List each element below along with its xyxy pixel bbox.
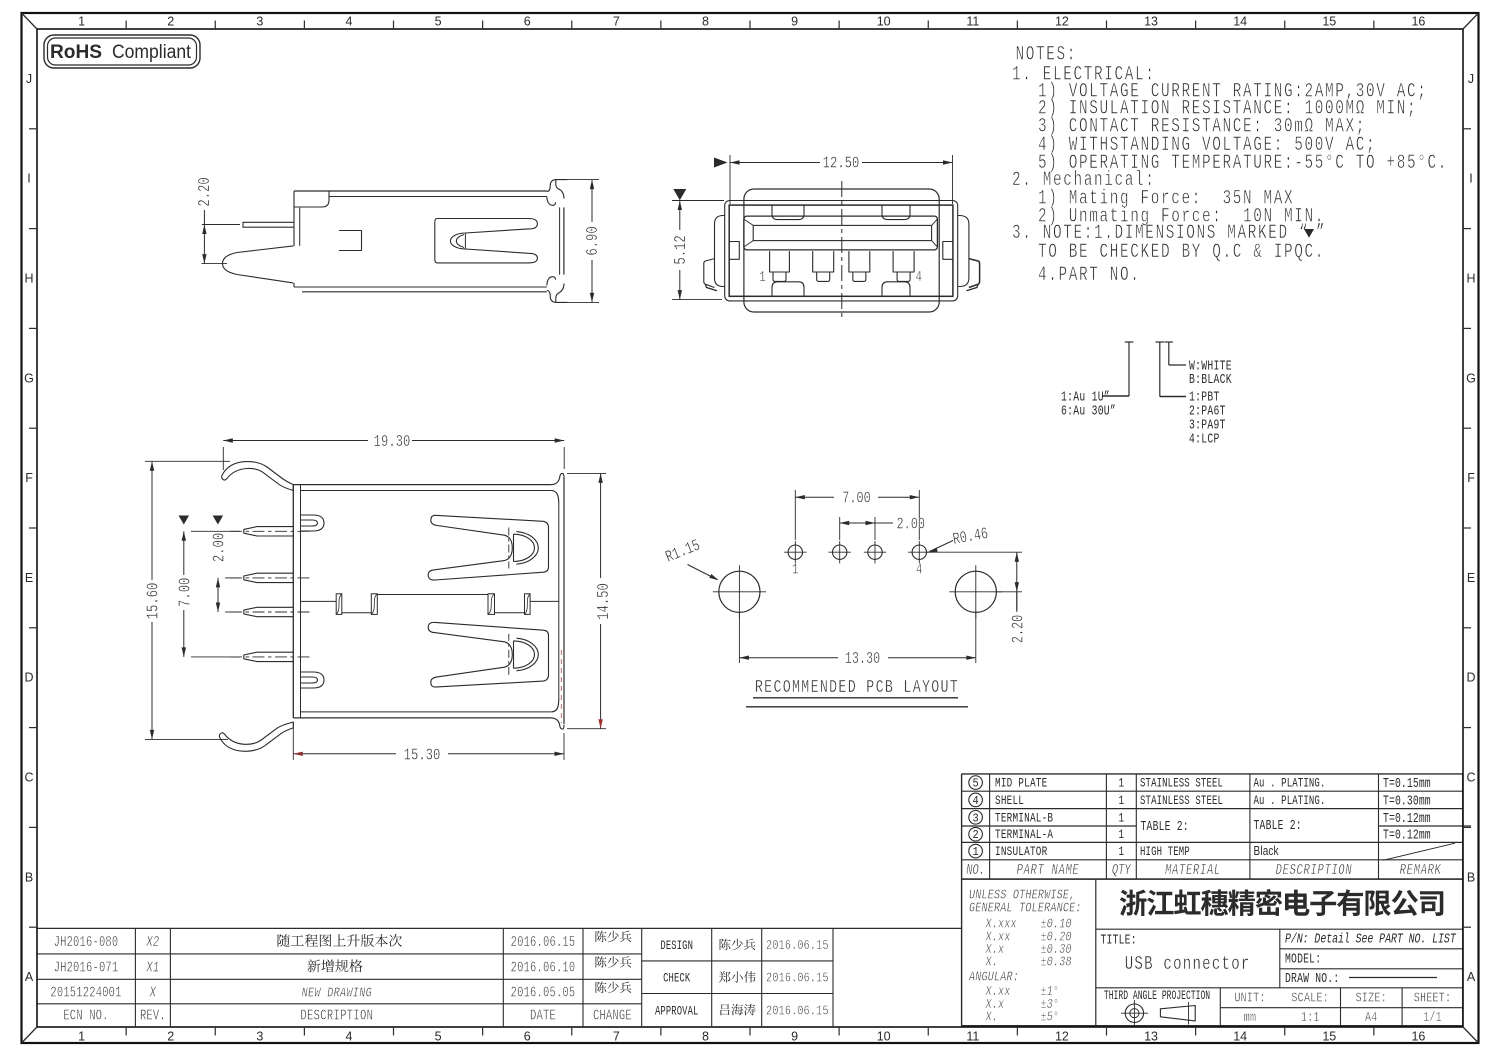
svg-text:DESIGN: DESIGN	[660, 940, 693, 954]
svg-text:1: 1	[1118, 812, 1124, 826]
svg-text:mm: mm	[1244, 1010, 1257, 1026]
svg-text:ANGULAR:: ANGULAR:	[968, 969, 1019, 985]
svg-text:2016.06.15: 2016.06.15	[766, 1003, 829, 1019]
svg-text:X1: X1	[146, 959, 160, 976]
svg-text:2016.06.15: 2016.06.15	[511, 933, 576, 950]
svg-text:2.20: 2.20	[196, 177, 214, 206]
svg-text:6:Au 30U”: 6:Au 30U”	[1061, 403, 1116, 419]
svg-text:4: 4	[345, 1030, 352, 1044]
svg-text:2016.06.15: 2016.06.15	[766, 970, 829, 986]
svg-text:F: F	[1467, 471, 1475, 485]
svg-text:13.30: 13.30	[845, 650, 881, 668]
svg-text:13: 13	[1144, 15, 1158, 29]
svg-text:TABLE 2:: TABLE 2:	[1254, 818, 1302, 834]
svg-text:5: 5	[435, 1030, 442, 1044]
svg-text:15: 15	[1322, 15, 1336, 29]
svg-text:6: 6	[524, 1030, 531, 1044]
svg-text:CHECK: CHECK	[663, 972, 690, 986]
svg-text:I: I	[27, 172, 30, 186]
svg-text:PART NAME: PART NAME	[1017, 861, 1080, 878]
svg-text:H: H	[24, 272, 33, 286]
svg-text:P/N: Detail See PART NO. LIST: P/N: Detail See PART NO. LIST	[1285, 931, 1456, 947]
svg-text:TERMINAL-B: TERMINAL-B	[995, 812, 1053, 826]
svg-text:Au . PLATING.: Au . PLATING.	[1254, 795, 1326, 809]
svg-text:APPROVAL: APPROVAL	[655, 1005, 699, 1019]
svg-text:9: 9	[791, 15, 798, 29]
svg-text:15.60: 15.60	[145, 583, 163, 620]
svg-text:QTY: QTY	[1112, 861, 1132, 878]
svg-text:T=0.12mm: T=0.12mm	[1383, 810, 1431, 826]
svg-text:C: C	[1466, 771, 1475, 785]
svg-text:MODEL:: MODEL:	[1285, 951, 1321, 967]
svg-text:2.00: 2.00	[897, 516, 925, 534]
svg-text:B: B	[1467, 870, 1475, 884]
svg-text:SHELL: SHELL	[995, 795, 1024, 809]
svg-text:A: A	[1467, 970, 1476, 984]
svg-text:12.50: 12.50	[823, 155, 860, 173]
svg-text:12: 12	[1055, 1030, 1069, 1044]
svg-text:7: 7	[613, 15, 620, 29]
svg-text:F: F	[25, 471, 33, 485]
svg-text:10: 10	[877, 15, 891, 29]
svg-text:Black: Black	[1254, 845, 1279, 858]
svg-text:2.00: 2.00	[211, 533, 229, 562]
svg-text:4: 4	[972, 795, 979, 808]
svg-text:3: 3	[256, 1030, 263, 1044]
svg-text:THIRD ANGLE PROJECTION: THIRD ANGLE PROJECTION	[1104, 989, 1210, 1003]
svg-text:G: G	[24, 371, 34, 385]
svg-text:NEW DRAWING: NEW DRAWING	[302, 985, 373, 1001]
svg-text:1/1: 1/1	[1423, 1010, 1442, 1026]
svg-text:1: 1	[792, 561, 799, 578]
svg-text:CHANGE: CHANGE	[593, 1007, 632, 1024]
svg-text:5: 5	[435, 15, 442, 29]
svg-text:DATE: DATE	[530, 1007, 556, 1024]
svg-text:1: 1	[759, 268, 766, 285]
svg-text:E: E	[25, 571, 33, 585]
svg-text:5.12: 5.12	[672, 235, 690, 264]
svg-text:SCALE:: SCALE:	[1291, 990, 1329, 1006]
svg-text:T=0.12mm: T=0.12mm	[1383, 827, 1431, 843]
svg-text:2: 2	[972, 830, 978, 843]
svg-text:1: 1	[1118, 777, 1124, 791]
svg-text:UNIT:: UNIT:	[1234, 990, 1265, 1006]
svg-text:14: 14	[1233, 1030, 1247, 1044]
svg-text:Au . PLATING.: Au . PLATING.	[1254, 777, 1326, 791]
svg-text:±5°: ±5°	[1041, 1009, 1060, 1025]
svg-text:15: 15	[1322, 1030, 1336, 1044]
svg-text:5: 5	[972, 778, 978, 791]
svg-text:19.30: 19.30	[374, 433, 411, 451]
svg-text:2016.06.10: 2016.06.10	[511, 959, 576, 976]
svg-text:JH2016-071: JH2016-071	[54, 959, 119, 976]
svg-text:2016.05.05: 2016.05.05	[511, 984, 576, 1001]
svg-text:±0.38: ±0.38	[1041, 954, 1072, 970]
svg-text:4.PART NO.: 4.PART NO.	[1038, 264, 1141, 287]
svg-text:4: 4	[915, 268, 922, 285]
svg-text:HIGH TEMP: HIGH TEMP	[1140, 846, 1190, 860]
svg-text:REMARK: REMARK	[1400, 861, 1442, 878]
svg-text:DRAW NO.:: DRAW NO.:	[1285, 971, 1339, 987]
svg-text:D: D	[24, 671, 33, 685]
svg-text:11: 11	[966, 1030, 979, 1044]
svg-text:X.: X.	[985, 1009, 998, 1025]
svg-text:1: 1	[972, 847, 979, 860]
svg-text:13: 13	[1144, 1030, 1158, 1044]
svg-text:JH2016-080: JH2016-080	[54, 933, 119, 950]
svg-text:I: I	[1469, 172, 1472, 186]
svg-text:10: 10	[877, 1030, 891, 1044]
svg-text:”: ”	[1316, 222, 1326, 245]
svg-text:RECOMMENDED PCB LAYOUT: RECOMMENDED PCB LAYOUT	[755, 677, 959, 698]
svg-text:14.50: 14.50	[595, 583, 613, 620]
svg-text:15.30: 15.30	[404, 747, 441, 765]
svg-text:T=0.15mm: T=0.15mm	[1383, 776, 1431, 792]
svg-text:1: 1	[1118, 829, 1124, 843]
svg-text:11: 11	[966, 15, 979, 29]
svg-text:X.: X.	[985, 954, 998, 970]
svg-text:RoHS: RoHS	[50, 41, 102, 63]
svg-text:DESCRIPTION: DESCRIPTION	[1276, 861, 1353, 878]
svg-text:MATERIAL: MATERIAL	[1165, 861, 1221, 878]
svg-text:REV.: REV.	[140, 1007, 166, 1024]
svg-text:7.00: 7.00	[177, 578, 195, 607]
svg-text:6.90: 6.90	[584, 226, 602, 255]
svg-text:C: C	[24, 771, 33, 785]
svg-text:3: 3	[972, 813, 978, 826]
svg-text:8: 8	[702, 15, 709, 29]
svg-text:3: 3	[256, 15, 263, 29]
svg-text:7: 7	[613, 1030, 620, 1044]
svg-text:4:LCP: 4:LCP	[1189, 431, 1220, 447]
svg-text:B: B	[25, 870, 33, 884]
svg-text:14: 14	[1233, 15, 1247, 29]
svg-text:SHEET:: SHEET:	[1414, 990, 1452, 1006]
svg-text:STAINLESS STEEL: STAINLESS STEEL	[1140, 777, 1223, 791]
svg-text:6: 6	[524, 15, 531, 29]
svg-text:TITLE:: TITLE:	[1101, 932, 1137, 948]
svg-text:TERMINAL-A: TERMINAL-A	[995, 829, 1053, 843]
svg-text:E: E	[1467, 571, 1475, 585]
svg-text:NO.: NO.	[966, 861, 985, 878]
svg-text:GENERAL TOLERANCE:: GENERAL TOLERANCE:	[969, 900, 1082, 916]
svg-text:USB connector: USB connector	[1125, 954, 1251, 976]
svg-text:2016.06.15: 2016.06.15	[766, 938, 829, 954]
svg-text:16: 16	[1411, 1030, 1425, 1044]
svg-text:D: D	[1466, 671, 1475, 685]
svg-text:1: 1	[78, 15, 85, 29]
svg-text:SIZE:: SIZE:	[1356, 990, 1387, 1006]
svg-text:X: X	[149, 984, 157, 1001]
svg-text:20151224001: 20151224001	[50, 984, 121, 1001]
svg-text:STAINLESS STEEL: STAINLESS STEEL	[1140, 795, 1223, 809]
svg-text:J: J	[26, 72, 32, 86]
svg-text:G: G	[1466, 371, 1476, 385]
svg-text:B:BLACK: B:BLACK	[1189, 372, 1232, 388]
svg-text:ECN NO.: ECN NO.	[63, 1007, 108, 1024]
svg-text:MID PLATE: MID PLATE	[995, 777, 1047, 791]
svg-text:TABLE 2:: TABLE 2:	[1141, 819, 1189, 835]
svg-text:TO BE CHECKED BY Q.C & IPQC.: TO BE CHECKED BY Q.C & IPQC.	[1038, 241, 1325, 264]
svg-text:7.00: 7.00	[842, 490, 870, 508]
svg-text:A: A	[25, 970, 34, 984]
svg-text:2: 2	[167, 1030, 174, 1044]
svg-text:16: 16	[1411, 15, 1425, 29]
svg-text:X2: X2	[146, 933, 160, 950]
svg-text:8: 8	[702, 1030, 709, 1044]
svg-text:DESCRIPTION: DESCRIPTION	[300, 1007, 373, 1024]
svg-text:H: H	[1466, 272, 1475, 286]
svg-text:INSULATOR: INSULATOR	[995, 846, 1047, 860]
svg-text:J: J	[1468, 72, 1474, 86]
svg-text:9: 9	[791, 1030, 798, 1044]
svg-text:2: 2	[167, 15, 174, 29]
svg-text:4: 4	[345, 15, 352, 29]
svg-text:1: 1	[1118, 846, 1124, 860]
svg-text:12: 12	[1055, 15, 1069, 29]
svg-text:Compliant: Compliant	[112, 42, 192, 63]
svg-text:A4: A4	[1365, 1010, 1378, 1026]
svg-text:1:1: 1:1	[1301, 1010, 1320, 1026]
svg-text:4: 4	[916, 561, 923, 578]
svg-text:T=0.30mm: T=0.30mm	[1383, 793, 1431, 809]
svg-text:1: 1	[78, 1030, 85, 1044]
svg-text:2.20: 2.20	[1010, 615, 1028, 643]
svg-text:1: 1	[1118, 795, 1124, 809]
